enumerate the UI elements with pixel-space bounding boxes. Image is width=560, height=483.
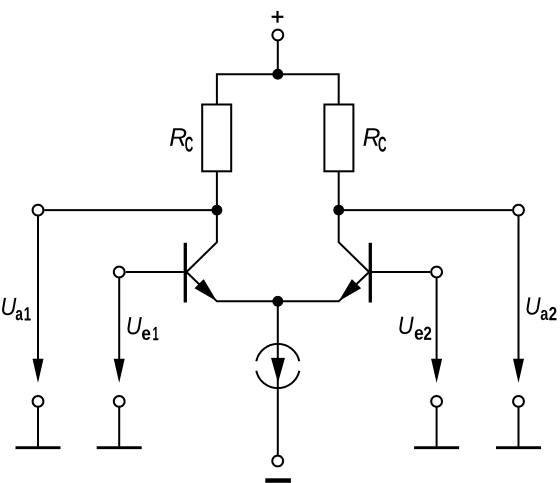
positive supply terminal: [272, 30, 283, 41]
junction collector node left: [212, 205, 223, 216]
current source I0: [256, 344, 299, 388]
wire supply terminal to rail: [277, 40, 279, 74]
voltage arrow Ua2: [513, 216, 524, 383]
resistor RC left: [202, 105, 231, 172]
label RC left: [170, 128, 193, 151]
wire base Q1: [126, 271, 184, 273]
emitter arrow Q1: [195, 279, 217, 301]
wire emitter node through current source to negative terminal: [277, 301, 279, 455]
output terminal left: [33, 205, 44, 216]
wire collector node left to output terminal: [45, 209, 217, 211]
resistor RC right: [324, 105, 353, 172]
wire collector node right to output terminal: [339, 209, 512, 211]
ground bar right outer: [496, 446, 541, 449]
ground bar left outer: [16, 446, 61, 449]
junction collector node right: [333, 205, 344, 216]
ground bar right inner: [414, 446, 459, 449]
ground terminal left outer: [33, 396, 44, 407]
label Ua1: [2, 298, 31, 321]
negative supply bar: [265, 478, 291, 483]
stub left inner: [118, 407, 120, 447]
voltage arrow Ue1: [114, 277, 125, 383]
wire RC right to collector node: [338, 171, 340, 210]
transistor Q2 base bar: [369, 243, 372, 303]
wire emitter Q2 to common node: [278, 272, 369, 301]
stub right outer: [518, 407, 520, 447]
wire top rail: [217, 74, 339, 104]
stub left outer: [37, 407, 39, 447]
ground terminal right outer: [513, 396, 524, 407]
label Ue2: [399, 317, 431, 340]
label Ua2: [527, 297, 557, 320]
input terminal left: [114, 267, 125, 278]
junction common emitter node: [272, 296, 283, 307]
ground terminal left inner: [114, 396, 125, 407]
wire base Q2: [372, 271, 430, 273]
ground bar left inner: [97, 446, 142, 449]
wire RC left to collector node: [216, 171, 218, 210]
wire emitter Q1 to common node: [187, 272, 278, 301]
voltage arrow Ue2: [431, 277, 442, 383]
wire collector Q2: [339, 210, 369, 272]
junction supply node: [272, 69, 283, 80]
emitter arrow Q2: [339, 279, 361, 301]
negative supply terminal: [272, 456, 283, 467]
output terminal right: [513, 205, 524, 216]
stub right inner: [436, 407, 438, 447]
voltage arrow Ua1: [33, 216, 44, 383]
label Ue1: [127, 317, 158, 340]
wire collector Q1: [187, 210, 217, 272]
ground terminal right inner: [431, 396, 442, 407]
input terminal right: [431, 267, 442, 278]
supply plus sign: [272, 11, 284, 23]
transistor Q1 base bar: [184, 243, 187, 303]
label RC right: [363, 128, 386, 151]
